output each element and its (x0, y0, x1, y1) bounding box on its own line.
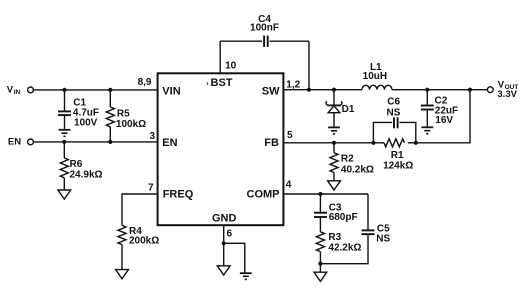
pin number 1,2 (286, 79, 300, 90)
pin name SW (262, 85, 280, 97)
node R1 right (414, 141, 418, 145)
pin name EN (162, 137, 177, 149)
svg-text:R2: R2 (341, 154, 354, 165)
svg-text:100nF: 100nF (250, 23, 279, 34)
resistor R2 (330, 143, 374, 181)
wire GND to arrow ground (223, 243, 225, 265)
svg-text:6: 6 (227, 228, 233, 239)
capacitor C2 (421, 90, 458, 127)
ground R2 (arrow style) (328, 181, 341, 190)
svg-text:200kΩ: 200kΩ (129, 236, 159, 247)
capacitor C4 (220, 14, 309, 47)
capacitor C3 (314, 194, 358, 232)
pin name GND (212, 212, 237, 224)
svg-text:7: 7 (148, 182, 154, 193)
svg-text:124kΩ: 124kΩ (383, 161, 413, 172)
wire BST pin 10 stub (219, 41, 221, 73)
node C3 top (318, 192, 322, 196)
svg-text:3: 3 (149, 131, 155, 142)
node C1 top (62, 88, 66, 92)
ground R6 (arrow style) (58, 190, 71, 199)
svg-text:SW: SW (262, 85, 280, 97)
pin number 6 (227, 228, 233, 239)
resistor R4 (118, 225, 159, 269)
pin number 3 (149, 131, 155, 142)
resistor R3 (316, 232, 361, 264)
terminal VIN (7, 84, 34, 96)
wire GND pin 6 stub (223, 225, 225, 243)
node R6 top (62, 140, 66, 144)
svg-text:40.2kΩ: 40.2kΩ (341, 165, 374, 176)
pin name BST (206, 77, 232, 89)
pin name FREQ (163, 188, 194, 200)
svg-text:3.3V: 3.3V (497, 89, 517, 100)
node VOUT/FB divider (468, 88, 472, 92)
wire FB rail (283, 142, 384, 144)
pin name FB (264, 137, 279, 149)
inductor L1 (362, 62, 392, 90)
node C4/SW (307, 88, 311, 92)
wire EN rail (34, 141, 158, 143)
wire GND to bar ground (224, 243, 245, 272)
ground C1 (bar style) (59, 130, 71, 137)
svg-text:5: 5 (287, 130, 293, 141)
svg-text:EN: EN (162, 137, 177, 149)
svg-text:100V: 100V (74, 118, 98, 129)
node GND junction (222, 241, 226, 245)
terminal EN (8, 137, 34, 148)
wire VIN rail (34, 89, 158, 91)
svg-text:BST: BST (211, 77, 233, 89)
svg-text:D1: D1 (342, 104, 355, 115)
wire to ground below R3 (319, 264, 321, 273)
terminal VOUT (487, 79, 518, 99)
node D1 top (332, 88, 336, 92)
svg-text:COMP: COMP (247, 188, 280, 200)
ground D1 (bar style) (328, 127, 340, 133)
node R5 top (108, 88, 112, 92)
pin number 7 (148, 182, 154, 193)
svg-text:42.2kΩ: 42.2kΩ (328, 242, 361, 253)
svg-text:100kΩ: 100kΩ (116, 119, 146, 130)
diode D1 (schottky) (326, 90, 355, 127)
node C2 top (425, 88, 429, 92)
IC U1 body (158, 73, 284, 225)
svg-text:24.9kΩ: 24.9kΩ (70, 170, 103, 181)
svg-text:NS: NS (376, 234, 390, 245)
pin number 10 (225, 60, 237, 71)
wire C4 to SW rail (308, 41, 310, 89)
svg-text:NS: NS (387, 107, 401, 118)
svg-text:C6: C6 (387, 96, 400, 107)
svg-text:1,2: 1,2 (286, 79, 300, 90)
pin name COMP (247, 188, 280, 200)
ground GND (bar style) (240, 273, 252, 279)
capacitor C5 branch (320, 194, 390, 264)
svg-text:10: 10 (225, 60, 237, 71)
node R5 bottom (108, 140, 112, 144)
pin number 4 (286, 180, 292, 191)
resistor R6 (60, 142, 102, 190)
resistor R1 (383, 139, 413, 172)
svg-text:8,9: 8,9 (138, 77, 152, 88)
node C3/R3 bottom (318, 262, 322, 266)
node R1 left (371, 141, 375, 145)
node R2 top (332, 141, 336, 145)
svg-text:16V: 16V (435, 115, 453, 126)
wire SW rail right (392, 89, 487, 91)
resistor R5 (106, 90, 146, 142)
svg-text:IN: IN (14, 89, 21, 96)
svg-text:FB: FB (264, 137, 279, 149)
ground C2 (bar style) (421, 127, 433, 134)
capacitor C1 (58, 90, 99, 129)
pin number 8,9 (138, 77, 152, 88)
svg-text:R6: R6 (70, 159, 83, 170)
svg-text:VIN: VIN (162, 86, 180, 98)
svg-text:4: 4 (286, 180, 292, 191)
capacitor C6 loop (373, 96, 415, 143)
svg-text:R5: R5 (117, 109, 130, 120)
svg-text:R1: R1 (391, 150, 404, 161)
wire COMP pin 4 (283, 193, 368, 195)
svg-text:V: V (7, 84, 14, 95)
svg-text:10uH: 10uH (363, 71, 387, 82)
pin number 5 (287, 130, 293, 141)
ground R3 (arrow style) (314, 272, 327, 281)
ground R4 (arrow style) (116, 270, 129, 279)
svg-text:FREQ: FREQ (163, 188, 194, 200)
svg-text:680pF: 680pF (329, 212, 358, 223)
wire SW rail left (283, 89, 362, 91)
svg-text:EN: EN (8, 137, 21, 148)
wire VOUT to FB divider (408, 90, 470, 143)
wire FREQ pin 7 (122, 194, 158, 225)
pin name VIN (162, 86, 180, 98)
svg-text:GND: GND (212, 212, 237, 224)
ground GND (arrow style) (217, 266, 230, 275)
